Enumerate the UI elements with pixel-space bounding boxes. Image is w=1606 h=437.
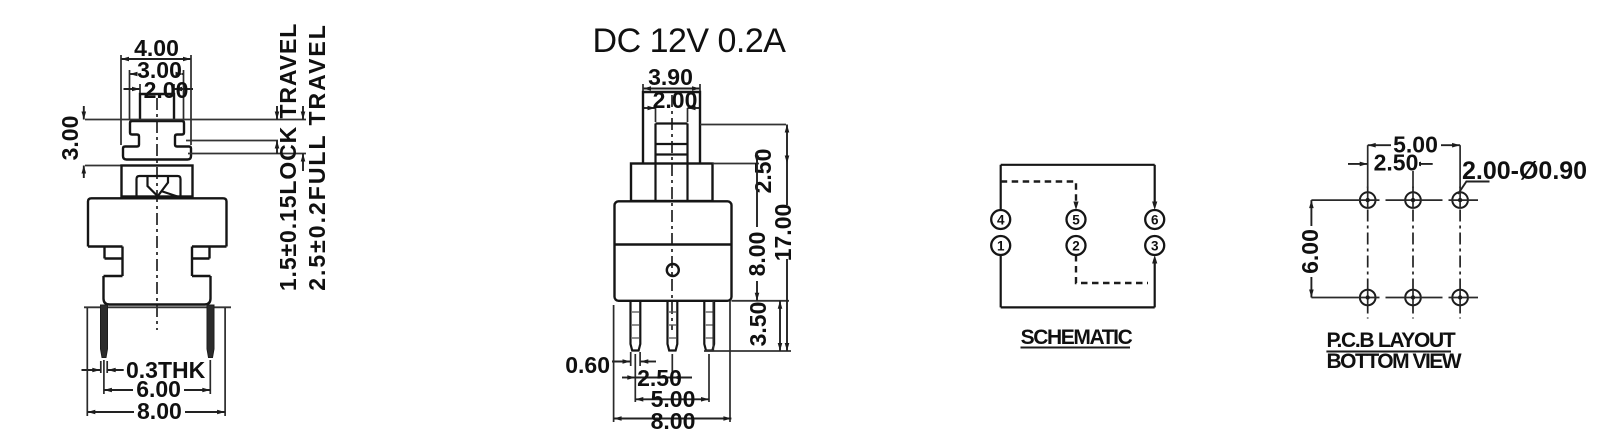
svg-text:0.60: 0.60 [565,352,610,378]
svg-text:5: 5 [1072,212,1080,227]
svg-text:8.00: 8.00 [744,232,770,277]
svg-text:8.00: 8.00 [651,408,696,434]
svg-text:2.00: 2.00 [144,77,189,103]
svg-text:1.5±0.15LOCK TRAVEL: 1.5±0.15LOCK TRAVEL [275,23,301,291]
svg-text:4: 4 [997,212,1005,227]
svg-text:2.5±0.2FULL TRAVEL: 2.5±0.2FULL TRAVEL [304,23,330,291]
svg-text:6: 6 [1151,212,1159,227]
svg-text:3.00: 3.00 [57,116,83,161]
svg-text:8.00: 8.00 [137,398,182,424]
svg-text:BOTTOM VIEW: BOTTOM VIEW [1327,350,1462,373]
svg-text:2: 2 [1072,238,1080,253]
svg-text:2.50: 2.50 [750,149,776,194]
svg-text:17.00: 17.00 [770,204,796,262]
svg-text:P.C.B LAYOUT: P.C.B LAYOUT [1327,329,1456,352]
svg-text:1: 1 [997,238,1005,253]
svg-text:6.00: 6.00 [1297,229,1323,274]
svg-text:3: 3 [1151,238,1159,253]
svg-text:2.00-Ø0.90: 2.00-Ø0.90 [1462,157,1587,185]
svg-text:SCHEMATIC: SCHEMATIC [1021,326,1133,349]
svg-text:3.50: 3.50 [745,302,771,347]
svg-text:2.50: 2.50 [1374,150,1419,176]
svg-text:DC 12V 0.2A: DC 12V 0.2A [593,22,787,60]
